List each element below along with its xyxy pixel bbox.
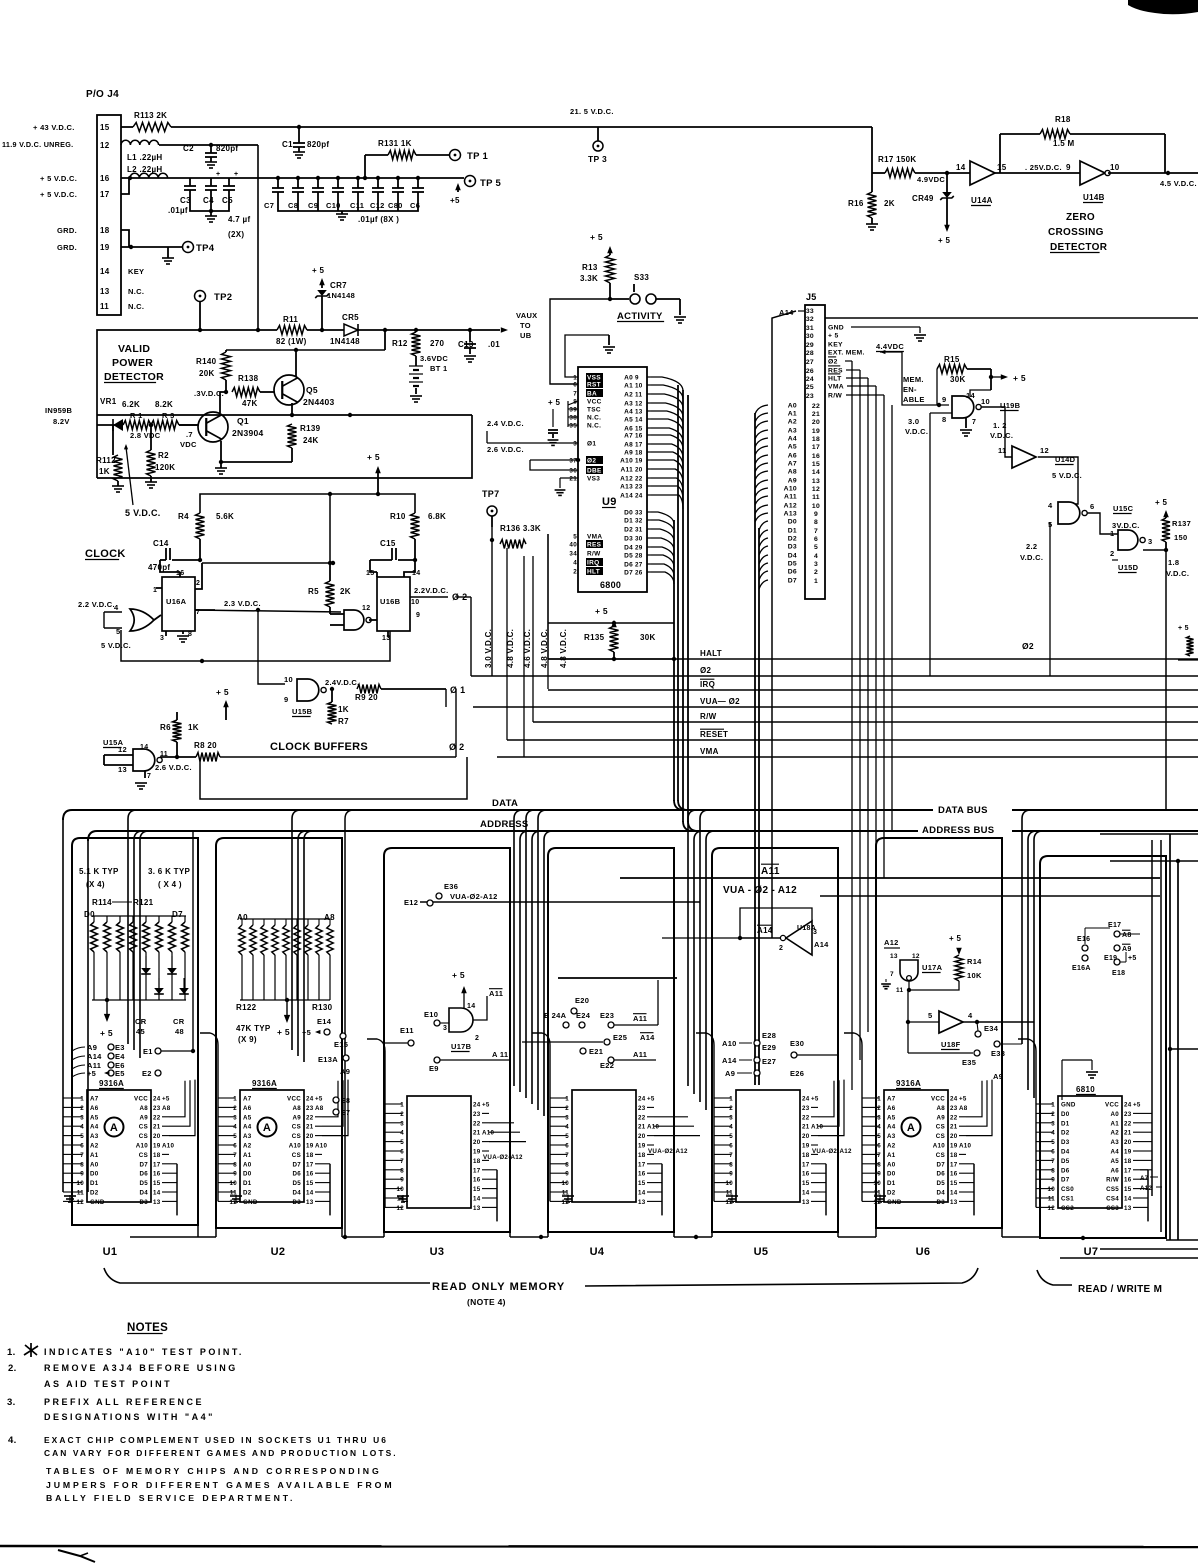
socket U7 outline: [1040, 856, 1166, 1238]
svg-text:6: 6: [729, 1143, 733, 1150]
svg-text:15: 15: [638, 1180, 646, 1187]
svg-text:PREFIX ALL REFERENCE: PREFIX ALL REFERENCE: [44, 1397, 204, 1407]
svg-text:17: 17: [473, 1167, 481, 1174]
junction C1 top: [297, 125, 301, 129]
memory chip U4: [572, 1090, 636, 1202]
svg-text:C15: C15: [380, 539, 396, 548]
svg-text:TABLES OF MEMORY CHIPS AND: TABLES OF MEMORY CHIPS AND CORRESPONDING: [46, 1466, 382, 1476]
gate U15D nand: [1118, 530, 1138, 550]
svg-text:A3: A3: [624, 401, 633, 408]
svg-text:R122: R122: [236, 1003, 257, 1012]
svg-text:TP7: TP7: [482, 489, 499, 499]
svg-text:12: 12: [77, 1199, 85, 1206]
capacitor C7: [276, 176, 280, 180]
U15D out junction: [1143, 549, 1166, 551]
svg-text:27: 27: [635, 562, 643, 569]
svg-text:4: 4: [968, 1011, 973, 1020]
svg-text:IRQ: IRQ: [700, 680, 715, 689]
junction pin19: [129, 245, 133, 249]
U9 VSS gnd loop: [565, 335, 609, 377]
svg-text:A1: A1: [90, 1152, 99, 1159]
U2 jumper E8 E7: [333, 1097, 339, 1103]
svg-text:9: 9: [400, 1177, 404, 1184]
svg-text:.3V.D.C.: .3V.D.C.: [194, 389, 224, 398]
svg-text:1: 1: [573, 375, 577, 382]
svg-text:37: 37: [569, 458, 577, 465]
memory chip U5: [736, 1090, 800, 1202]
svg-text:A0: A0: [90, 1161, 99, 1168]
svg-text:9: 9: [1051, 1177, 1055, 1184]
svg-text:3.3K: 3.3K: [580, 274, 598, 283]
svg-text:A6: A6: [788, 453, 797, 460]
transistor Q5 2N4403: [274, 375, 304, 405]
bus taps U2: [292, 810, 301, 1050]
svg-text:A10: A10: [959, 1143, 972, 1150]
svg-text:14: 14: [467, 1003, 475, 1010]
svg-text:CR49: CR49: [912, 194, 934, 203]
svg-text:29: 29: [806, 342, 814, 349]
svg-text:17: 17: [153, 1161, 161, 1168]
svg-text:820pf: 820pf: [216, 144, 238, 153]
U15D out rail: [1165, 550, 1167, 810]
svg-text:A10: A10: [620, 458, 633, 465]
svg-text:7: 7: [147, 773, 151, 780]
phi1 feed vertical: [445, 689, 447, 707]
svg-text:23: 23: [638, 1105, 646, 1112]
svg-text:19: 19: [635, 458, 643, 465]
svg-text:23: 23: [473, 1111, 481, 1118]
svg-text:2.6 V.D.C.: 2.6 V.D.C.: [155, 763, 192, 772]
svg-text:10: 10: [726, 1180, 734, 1187]
svg-text:2.2: 2.2: [1026, 542, 1037, 551]
svg-text:D2: D2: [243, 1190, 252, 1197]
buffer U14B: [995, 172, 1080, 174]
svg-text:VMA: VMA: [587, 534, 602, 541]
svg-text:A14: A14: [757, 926, 773, 935]
svg-text:+ 5: + 5: [277, 1027, 290, 1037]
svg-text:1: 1: [80, 1096, 84, 1103]
svg-text:16: 16: [635, 433, 643, 440]
ROM bracket left hook: [104, 1268, 430, 1283]
svg-text:13: 13: [382, 635, 390, 642]
svg-text:ACTIVITY: ACTIVITY: [617, 311, 663, 322]
svg-text:E17: E17: [1108, 922, 1121, 929]
svg-text:8: 8: [565, 1161, 569, 1168]
socket U2 ground: [236, 1200, 241, 1202]
resistor R6 1K: [173, 720, 182, 742]
svg-text:22: 22: [1124, 1120, 1132, 1127]
svg-text:8: 8: [400, 1167, 404, 1174]
svg-text:10: 10: [562, 1180, 570, 1187]
svg-text:D1: D1: [1061, 1120, 1070, 1127]
svg-text:C80: C80: [388, 201, 403, 210]
svg-text:C8: C8: [288, 201, 298, 210]
svg-text:+ 5: + 5: [938, 236, 950, 245]
svg-text:Q5: Q5: [306, 385, 318, 395]
svg-text:6: 6: [814, 536, 818, 543]
svg-text:R139: R139: [300, 424, 321, 433]
svg-text:S33: S33: [634, 273, 649, 282]
R136 feed vertical: [491, 560, 493, 676]
svg-text:A12: A12: [1140, 1185, 1153, 1192]
svg-text:2K: 2K: [884, 199, 895, 208]
svg-text:820pf: 820pf: [307, 140, 329, 149]
svg-text:14: 14: [638, 1190, 646, 1197]
bus vertical addr: [682, 390, 684, 822]
svg-text:A7: A7: [1140, 1175, 1149, 1182]
svg-text:A2: A2: [243, 1143, 252, 1150]
svg-text:3: 3: [877, 1114, 881, 1121]
svg-text:A9: A9: [139, 1114, 148, 1121]
svg-text:16: 16: [638, 1171, 646, 1178]
svg-text:U6: U6: [916, 1246, 931, 1258]
svg-text:Ø1: Ø1: [587, 441, 596, 448]
svg-text:JUMPERS FOR DIFFERENT GAMES: JUMPERS FOR DIFFERENT GAMES AVAILABLE FR…: [46, 1480, 394, 1490]
svg-text:U14B: U14B: [1083, 193, 1105, 202]
svg-text:A4: A4: [1110, 1149, 1119, 1156]
svg-text:24: 24: [806, 376, 814, 383]
chip left comb: [217, 1045, 219, 1201]
clock buffer feed vertical: [455, 756, 457, 758]
svg-text:9: 9: [284, 695, 288, 704]
svg-text:13: 13: [1124, 1205, 1132, 1212]
svg-text:9: 9: [233, 1171, 237, 1178]
svg-text:20K: 20K: [199, 369, 215, 378]
U7 ground top: [1091, 1060, 1093, 1070]
U19B out to U14D: [981, 407, 1012, 457]
osc feedback rail: [121, 630, 390, 661]
svg-text:32: 32: [806, 316, 814, 323]
svg-text:A11: A11: [784, 494, 797, 501]
svg-text:5: 5: [928, 1011, 932, 1020]
svg-text:8.2V: 8.2V: [53, 417, 70, 426]
svg-text:V.D.C.: V.D.C.: [905, 427, 928, 436]
svg-text:CS: CS: [139, 1152, 148, 1159]
svg-text:.01µf (8X ): .01µf (8X ): [358, 215, 399, 224]
svg-text:+5: +5: [1133, 1102, 1141, 1109]
memory chip U2 9316A: [240, 1090, 304, 1202]
svg-text:11: 11: [77, 1190, 84, 1197]
svg-text:CLOCK: CLOCK: [85, 548, 126, 560]
svg-text:D7: D7: [172, 910, 183, 919]
line right y861: [1110, 860, 1198, 862]
svg-text:1: 1: [877, 1096, 881, 1103]
J4 pin17 tie: [121, 178, 129, 194]
svg-text:E13A: E13A: [318, 1055, 338, 1064]
svg-text:1: 1: [729, 1096, 733, 1103]
chip right pin wires: [818, 1081, 834, 1117]
svg-text:14: 14: [812, 469, 820, 476]
svg-text:CR: CR: [135, 1017, 147, 1026]
svg-text:1N4148: 1N4148: [330, 337, 360, 346]
svg-text:A8: A8: [936, 1105, 945, 1112]
svg-text:E29: E29: [762, 1043, 776, 1052]
wire to R12 and VAUX: [387, 329, 500, 331]
svg-text:D1: D1: [624, 518, 633, 525]
svg-text:+5: +5: [811, 1096, 819, 1103]
svg-text:+ 5: + 5: [100, 1028, 113, 1038]
svg-text:19: 19: [638, 1143, 646, 1150]
svg-text:E23: E23: [600, 1011, 614, 1020]
capacitor C4 plus: [210, 178, 212, 186]
valid power detector box: [97, 330, 277, 478]
svg-text:21: 21: [569, 476, 577, 483]
svg-text:32: 32: [635, 518, 643, 525]
svg-text:A10: A10: [315, 1143, 328, 1150]
svg-text:10: 10: [1048, 1186, 1056, 1193]
svg-text:A9: A9: [624, 450, 633, 457]
bottom page edge line: [0, 1546, 1198, 1547]
svg-text:TP 1: TP 1: [467, 151, 489, 162]
svg-text:4: 4: [1051, 1130, 1055, 1137]
svg-text:A13: A13: [784, 511, 797, 518]
svg-text:10: 10: [874, 1180, 882, 1187]
svg-text:D7: D7: [292, 1161, 301, 1168]
svg-text:CS: CS: [936, 1124, 945, 1131]
svg-text:Ø2: Ø2: [587, 458, 596, 465]
svg-text:Ø2: Ø2: [700, 666, 712, 675]
svg-text:A8: A8: [788, 469, 797, 476]
svg-text:12: 12: [635, 401, 643, 408]
svg-text:A5: A5: [243, 1114, 252, 1121]
svg-text:18: 18: [100, 226, 110, 235]
svg-text:CR: CR: [173, 1017, 185, 1026]
svg-text:24: 24: [635, 493, 643, 500]
svg-text:47K TYP: 47K TYP: [236, 1024, 271, 1033]
svg-text:VALID: VALID: [118, 343, 150, 355]
svg-text:5: 5: [877, 1133, 881, 1140]
svg-text:2.4 V.D.C.: 2.4 V.D.C.: [487, 419, 524, 428]
svg-text:D5: D5: [624, 553, 633, 560]
svg-text:A10: A10: [162, 1143, 175, 1150]
svg-text:4: 4: [1048, 501, 1053, 510]
svg-text:A9: A9: [340, 1067, 350, 1076]
J5 GND wire: [851, 326, 920, 328]
svg-text:CS: CS: [139, 1124, 148, 1131]
test point TP2: [195, 291, 206, 302]
svg-text:9: 9: [814, 511, 818, 518]
svg-text:ABLE: ABLE: [903, 395, 925, 404]
svg-text:20: 20: [638, 1133, 646, 1140]
svg-text:E10: E10: [424, 1010, 438, 1019]
svg-text:A3: A3: [887, 1133, 896, 1140]
svg-text:R4: R4: [178, 512, 189, 521]
resistor R113: [121, 126, 133, 128]
svg-text:R17 150K: R17 150K: [878, 155, 916, 164]
svg-text:D7: D7: [139, 1161, 148, 1168]
ADDRESS bus line: [88, 831, 97, 841]
svg-text:15: 15: [950, 1180, 958, 1187]
Q1 emitter ground: [220, 441, 222, 462]
svg-text:16: 16: [802, 1171, 810, 1178]
svg-text:U5: U5: [754, 1246, 769, 1258]
svg-text:A9: A9: [1122, 946, 1132, 953]
U7 right pin stubs: [1140, 1112, 1152, 1114]
svg-text:D4: D4: [1061, 1149, 1070, 1156]
svg-text:13: 13: [890, 953, 898, 960]
svg-text:3.6VDC: 3.6VDC: [420, 354, 448, 363]
svg-text:6: 6: [1051, 1149, 1055, 1156]
svg-text:A13: A13: [620, 484, 633, 491]
svg-text:24: 24: [950, 1096, 958, 1103]
svg-text:D0: D0: [243, 1171, 252, 1178]
gate U17B: [449, 1008, 473, 1032]
svg-text:2.3 V.D.C.: 2.3 V.D.C.: [224, 599, 261, 608]
svg-text:A4: A4: [887, 1124, 896, 1131]
svg-text:U7: U7: [1084, 1246, 1099, 1258]
svg-text:16: 16: [812, 453, 820, 460]
connector J5 body: [805, 305, 825, 599]
svg-text:R/W: R/W: [828, 393, 842, 400]
svg-text:+ 5: + 5: [216, 687, 229, 697]
svg-text:9316A: 9316A: [896, 1079, 921, 1088]
test point TP4: [183, 242, 194, 253]
+5 arrow at TP5: [455, 183, 461, 190]
svg-text:VCC: VCC: [931, 1096, 945, 1103]
chip left comb: [1035, 1051, 1037, 1207]
svg-text:E36: E36: [444, 882, 458, 891]
svg-text:KEY: KEY: [128, 267, 144, 276]
gate U15C nand: [1058, 502, 1080, 524]
U2 +5 arrow: [286, 1000, 288, 1015]
svg-text:21: 21: [306, 1124, 314, 1131]
svg-text:R6: R6: [160, 723, 171, 732]
svg-text:9316A: 9316A: [252, 1079, 277, 1088]
svg-text:A5: A5: [887, 1114, 896, 1121]
svg-text:3.: 3.: [7, 1397, 16, 1408]
J4 pin18 tie: [121, 230, 129, 247]
svg-text:20: 20: [1124, 1139, 1132, 1146]
svg-text:8: 8: [729, 1161, 733, 1168]
svg-text:19: 19: [473, 1149, 481, 1156]
svg-text:EN-: EN-: [903, 385, 917, 394]
svg-text:A0: A0: [243, 1161, 252, 1168]
svg-text:VCC: VCC: [1105, 1102, 1119, 1109]
svg-text:A7: A7: [887, 1096, 896, 1103]
svg-text:E27: E27: [762, 1057, 776, 1066]
svg-text:E12: E12: [404, 898, 418, 907]
svg-text:A3: A3: [788, 428, 797, 435]
svg-text:A5: A5: [1110, 1158, 1119, 1165]
svg-text:23: 23: [153, 1105, 161, 1112]
svg-text:4: 4: [565, 1124, 569, 1131]
svg-text:4.9VDC: 4.9VDC: [917, 175, 945, 184]
phi2 feed vertical: [470, 597, 472, 676]
svg-text:CS: CS: [936, 1133, 945, 1140]
svg-text:13: 13: [638, 1199, 646, 1206]
svg-text:C6: C6: [410, 201, 420, 210]
wire down from L1 line: [257, 145, 259, 330]
svg-text:7: 7: [877, 1152, 881, 1159]
svg-text:A8: A8: [315, 1105, 324, 1112]
svg-text:20: 20: [473, 1139, 481, 1146]
svg-text:8: 8: [814, 519, 818, 526]
svg-text:D0: D0: [788, 519, 797, 526]
svg-text:18: 18: [812, 436, 820, 443]
svg-text:U17A: U17A: [922, 963, 943, 972]
svg-text:1: 1: [400, 1102, 404, 1109]
svg-text:7: 7: [565, 1152, 569, 1159]
svg-text:A4: A4: [90, 1124, 99, 1131]
svg-text:2: 2: [877, 1105, 881, 1112]
svg-text:21: 21: [950, 1124, 958, 1131]
svg-text:A2: A2: [788, 419, 797, 426]
svg-text:31: 31: [806, 325, 814, 332]
svg-text:19: 19: [812, 428, 820, 435]
svg-text:20: 20: [635, 467, 643, 474]
svg-text:A7: A7: [243, 1096, 252, 1103]
U4 jumper E21: [580, 1048, 586, 1054]
svg-text:U15B: U15B: [292, 707, 313, 716]
svg-text:U14A: U14A: [971, 196, 993, 205]
U9 bypass cap: [552, 409, 554, 427]
svg-text:CR7: CR7: [330, 281, 347, 290]
svg-text:VUA-Ø2-A12: VUA-Ø2-A12: [450, 892, 498, 901]
svg-text:15: 15: [153, 1180, 161, 1187]
memory chip U7 6810: [1058, 1096, 1122, 1208]
svg-text:.01µf: .01µf: [168, 206, 188, 215]
svg-text:3: 3: [813, 929, 817, 936]
svg-text:A11: A11: [621, 467, 634, 474]
svg-text:ZERO: ZERO: [1066, 212, 1095, 223]
svg-text:A7: A7: [624, 433, 633, 440]
svg-text:VCC: VCC: [287, 1096, 301, 1103]
svg-text:A9: A9: [725, 1069, 735, 1078]
svg-text:4: 4: [877, 1124, 881, 1131]
svg-text:22: 22: [635, 476, 643, 483]
gate U15x nor left: [130, 609, 154, 631]
svg-text:4.5 V.D.C.: 4.5 V.D.C.: [1160, 179, 1197, 188]
svg-text:21. 5 V.D.C.: 21. 5 V.D.C.: [570, 107, 614, 116]
svg-text:TP 3: TP 3: [588, 154, 607, 164]
svg-text:A0: A0: [887, 1161, 896, 1168]
halt rail r135: [548, 658, 674, 660]
vdc column verticals: [506, 548, 508, 740]
svg-text:R/W: R/W: [587, 551, 601, 558]
svg-text:Ø 2: Ø 2: [449, 742, 464, 752]
svg-text:D6: D6: [936, 1171, 945, 1178]
svg-text:23: 23: [1124, 1111, 1132, 1118]
svg-text:D3: D3: [292, 1199, 301, 1206]
svg-text:GND: GND: [887, 1199, 902, 1206]
svg-text:( X 4 ): ( X 4 ): [158, 880, 182, 889]
svg-text:9316A: 9316A: [99, 1079, 124, 1088]
svg-text:5: 5: [1051, 1139, 1055, 1146]
chip left comb: [549, 1045, 551, 1201]
svg-text:VCC: VCC: [587, 399, 602, 406]
svg-text:TSC: TSC: [587, 407, 601, 414]
svg-text:C9: C9: [308, 201, 318, 210]
svg-text:+ 5: + 5: [590, 232, 603, 242]
svg-text:A14: A14: [620, 493, 633, 500]
svg-text:A2: A2: [624, 392, 633, 399]
svg-text:A6: A6: [90, 1105, 99, 1112]
DATA bus line: [63, 810, 72, 820]
svg-text:17: 17: [100, 190, 110, 199]
svg-text:5 V.D.C.: 5 V.D.C.: [125, 508, 161, 518]
svg-text:47K: 47K: [242, 399, 258, 408]
buffer U14A: [947, 172, 970, 174]
svg-text:24: 24: [306, 1096, 314, 1103]
svg-text:2: 2: [475, 1035, 479, 1042]
svg-text:6: 6: [233, 1143, 237, 1150]
svg-text:1: 1: [233, 1096, 237, 1103]
svg-text:A: A: [907, 1122, 915, 1134]
svg-text:GND: GND: [828, 325, 844, 332]
wire left VPD: [97, 424, 118, 426]
svg-text:E1: E1: [143, 1047, 153, 1056]
svg-text:150: 150: [1174, 533, 1187, 542]
